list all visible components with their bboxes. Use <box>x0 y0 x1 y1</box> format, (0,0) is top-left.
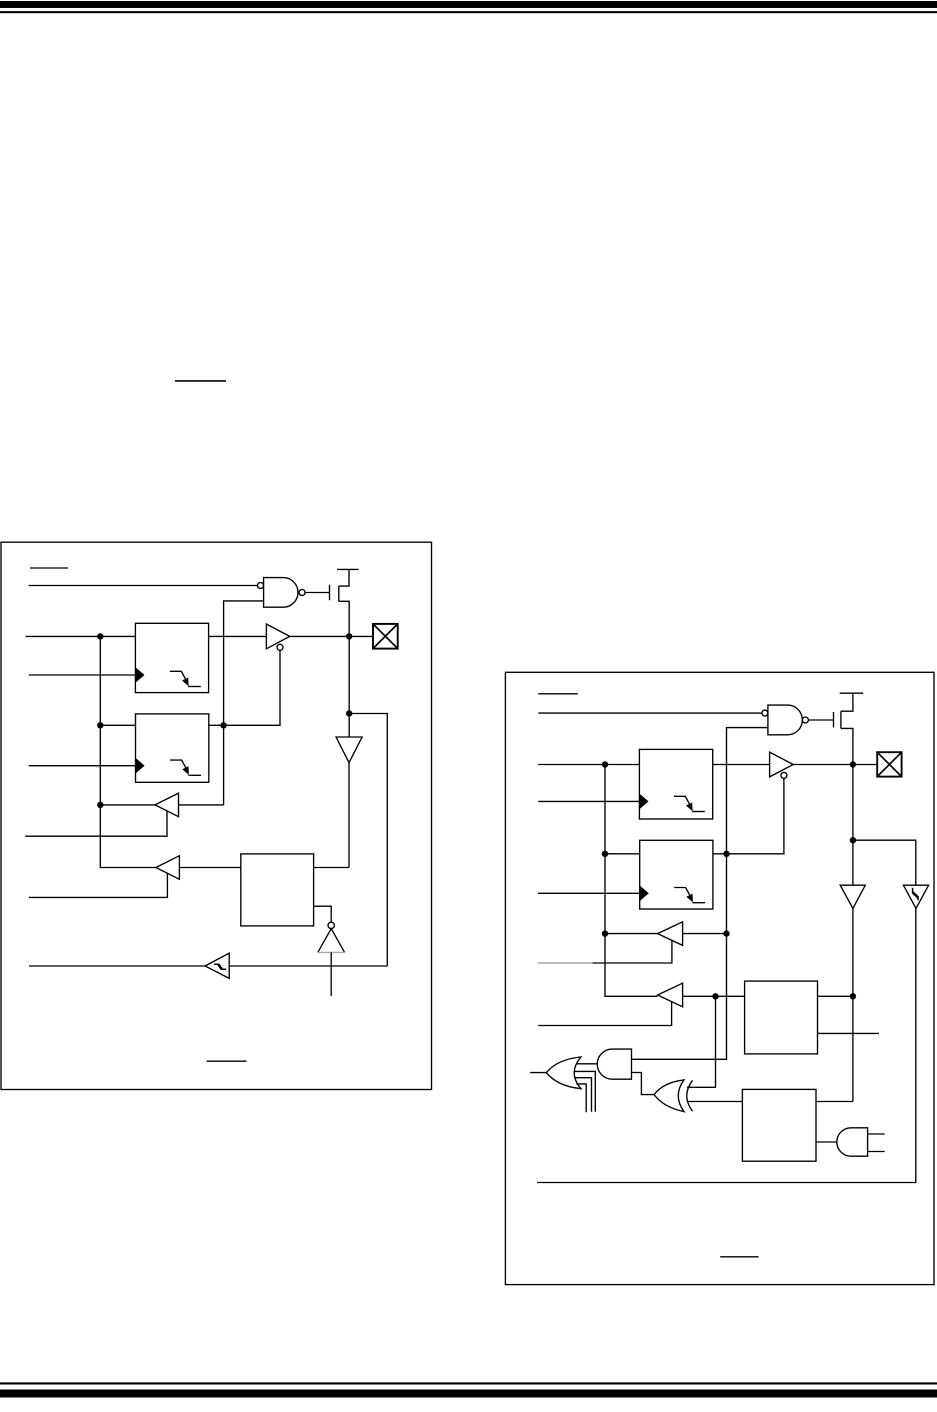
data latch DL2 (fig2) <box>639 749 712 819</box>
wire: branch to schmitt vertical (fig2) <box>853 840 916 885</box>
node: U11 input branch <box>712 993 718 999</box>
mode logic box B2 (fig2 upper) <box>745 981 818 1054</box>
wire: WR Port line (fig2) <box>538 800 641 802</box>
wire: into B3 right side <box>816 1101 853 1103</box>
wire: buffer to pin (fig2) <box>793 764 877 766</box>
U9 enable bubble <box>781 772 787 778</box>
NAND input bubble <box>258 583 264 589</box>
transistor Q2 gate bar <box>833 712 835 728</box>
NAND output bubble <box>299 590 305 596</box>
wire: G1 input 3 <box>575 1078 592 1112</box>
wire: B2 second output stub <box>818 1032 879 1034</box>
OR gate G1 (mirrored, fig2) <box>546 1057 581 1089</box>
DL1 clock arrow <box>135 667 144 683</box>
node: TRIS Q to NAND feedback <box>220 722 226 728</box>
RD PORT buffer U5 (fig1) <box>156 856 180 880</box>
nand gate U8 (fig2) <box>768 705 802 735</box>
wire: G1 input 1 from AND output <box>577 1063 598 1065</box>
wire: U3 out down to B1 line <box>348 763 350 868</box>
node: U10 input on feedback vertical <box>723 930 729 936</box>
U13 hysteresis mark <box>913 888 919 900</box>
wire: Q2 drain to pin node <box>841 728 853 764</box>
wire: TL1 top input from bus <box>100 724 135 726</box>
wire: G2 bottom input from XOR out <box>632 1073 655 1095</box>
transistor Q1 gate bar <box>329 585 331 601</box>
wire: U12 out down <box>852 908 854 1101</box>
wire: U10 out to bus <box>605 933 658 935</box>
DL2 clock arrow <box>639 794 648 810</box>
wire: RD PORT enable (fig2) <box>538 1002 671 1026</box>
node: data bus junction <box>97 633 103 639</box>
node: pin junction (fig2) <box>850 761 856 767</box>
wire: Q1 drain lead down to pin node <box>339 601 349 636</box>
node: data bus junction (fig2) <box>602 761 608 767</box>
figure 2 border <box>505 672 934 1284</box>
U2 enable bubble <box>277 644 283 650</box>
wire: RD TRIS enable (fig2) <box>593 941 672 963</box>
RD TRIS buffer U4 (fig1) <box>155 793 179 817</box>
wire: XOR bottom input from B3 <box>688 1101 742 1103</box>
wire: RD TRIS enable <box>25 811 167 836</box>
wire: DL1 Q to output buffer <box>209 635 267 637</box>
node: pin junction <box>346 633 352 639</box>
wire: NAND out to gate (fig2) <box>808 719 833 721</box>
output buffer U9 (fig2) <box>770 752 794 777</box>
wire: data bus stub (fig2) <box>538 764 639 766</box>
wire: B1 bottom tap to inverter <box>314 906 332 922</box>
schmitt buffer U13 (down triangle, fig2) <box>903 885 928 908</box>
wire: G1 input 2 <box>574 1071 595 1111</box>
nand gate U1 <box>264 578 298 608</box>
I/O pin pad (fig2) <box>877 752 901 776</box>
AND gate G4 (mirrored small, fig2) <box>837 1128 868 1156</box>
wire: NAND bottom input from TRIS feedback <box>224 601 264 805</box>
wire: NAND bottom input feedback (fig2) <box>632 728 768 1060</box>
transistor Q2 channel bar <box>840 711 842 728</box>
wire: junction to right vertical <box>349 714 387 967</box>
overline above invisible label (top left fig2) <box>538 693 578 695</box>
TL1 falling edge symbol <box>170 760 186 768</box>
wire: NAND output to transistor gate <box>305 592 329 594</box>
wire: WR TRIS line <box>29 765 137 767</box>
wire: B1 right to input buffer <box>314 867 349 869</box>
page footer thick rule <box>0 1390 937 1398</box>
wire: buffer out to pin <box>290 635 373 637</box>
wire: pin node to U3 <box>348 714 350 738</box>
wire: RD PORT enable <box>29 873 168 897</box>
page header thin rule <box>0 11 937 13</box>
wire: NAND top input (fig2) <box>538 712 762 714</box>
overline above invisible caption (fig2 bottom) <box>720 1256 758 1258</box>
overline above invisible caption (fig1 bottom) <box>207 1060 247 1062</box>
DL1 falling edge symbol <box>170 671 186 679</box>
page footer thin rule <box>0 1382 937 1384</box>
DL2 falling edge symbol <box>674 796 690 804</box>
mode logic box B1 (fig1) <box>241 854 314 926</box>
wire: RD TRIS enable gray segment (fig2) <box>538 962 593 964</box>
wire: U2 enable from TRIS latch <box>209 650 280 725</box>
RD PORT buffer U11 (fig2) <box>658 983 683 1007</box>
wire: U13 out down to long feedback <box>537 908 916 1182</box>
input buffer U12 (down triangle, fig2) <box>840 885 865 908</box>
XOR gate G3 (mirrored, fig2) <box>654 1080 684 1112</box>
wire: Q1 source lead to VDD <box>339 569 349 586</box>
node: U4 out on bus <box>97 802 103 808</box>
VDD bar (fig1) <box>337 568 359 570</box>
page header thick rule <box>0 1 937 8</box>
data latch DL1 (fig1) <box>135 623 208 692</box>
wire: U4 out to bus <box>100 804 155 806</box>
wire: WR Port line <box>29 674 137 676</box>
wire: data bus stub into data latch <box>26 635 136 637</box>
TRIS latch TL2 (fig2) <box>640 840 713 909</box>
wire: G4 input stub 1 <box>868 1133 885 1135</box>
wire: U6 input vertical <box>330 952 332 996</box>
U7 hysteresis mark <box>214 964 226 969</box>
TL2 falling edge symbol <box>674 888 690 896</box>
VDD bar (fig2) <box>840 692 864 694</box>
node: bus to TL1 <box>97 722 103 728</box>
wire: B2 right to vertical <box>818 995 853 997</box>
node: TRIS Q feedback (fig2) <box>723 851 729 857</box>
node: input path junction <box>346 710 352 716</box>
schmitt trigger buffer U7 (fig1) <box>205 953 229 978</box>
wire: U9 enable from TRIS latch (fig2) <box>713 778 784 853</box>
transistor Q1 channel bar <box>338 586 340 601</box>
TL2 clock arrow <box>640 886 649 902</box>
wire: U11 input from box1 (fig2) <box>683 995 745 997</box>
wire: DL2 Q to buffer (fig2) <box>713 764 770 766</box>
TRIS latch TL1 (fig1) <box>136 714 209 782</box>
node: B2 out on vertical <box>850 993 856 999</box>
wire: G4 output into B3 <box>816 1141 837 1143</box>
wire: U4 input from TRIS Q vertical <box>179 804 224 806</box>
wire: TL2 top input from bus <box>605 853 640 855</box>
wire: left vertical bus <box>100 636 156 867</box>
input buffer U3 (down triangle, fig1) <box>336 737 362 763</box>
wire: G4 input stub 2 <box>868 1151 885 1153</box>
wire: G1 output stub <box>530 1072 546 1074</box>
I/O pin pad (fig1) <box>373 624 398 649</box>
wire: U7 out to left <box>29 965 205 967</box>
overline above invisible label (top left fig1) <box>30 567 68 569</box>
NAND output bubble (fig2) <box>802 717 808 723</box>
MCLR overline in body text <box>175 380 226 382</box>
output buffer U2 (fig1) <box>266 624 289 649</box>
figure 1 border <box>1 542 432 1089</box>
AND gate G2 (mirrored, fig2) <box>597 1049 631 1079</box>
wire: U10 input <box>683 933 727 935</box>
node: U10 out on bus <box>602 930 608 936</box>
wire: Q2 source to VDD <box>841 693 853 711</box>
node: buffer branch (fig2) <box>850 837 856 843</box>
wire: U5 input from mode box <box>179 867 240 869</box>
wire: pin node down <box>348 636 350 713</box>
inverter U6 (up triangle, fig1) <box>318 929 345 953</box>
RD TRIS buffer U10 (fig2) <box>658 922 683 946</box>
NAND input bubble (fig2) <box>762 710 768 716</box>
wire: pin node down (fig2) <box>852 765 854 886</box>
wire: left vertical bus (fig2) <box>605 765 658 997</box>
wire: branch down to XOR input <box>687 996 716 1087</box>
mode logic box B3 (fig2 lower) <box>742 1089 816 1161</box>
inverter bubble (analog mode, fig1) <box>328 922 334 928</box>
XOR second arc <box>687 1080 693 1111</box>
wire: G1 input 4 <box>576 1084 586 1112</box>
node: bus to TL2 <box>602 851 608 857</box>
wire: NAND top input <box>29 585 258 587</box>
wire: WR TRIS line (fig2) <box>538 892 641 894</box>
wire: U7 input from right vertical <box>229 965 387 967</box>
TL1 clock arrow <box>136 758 145 774</box>
